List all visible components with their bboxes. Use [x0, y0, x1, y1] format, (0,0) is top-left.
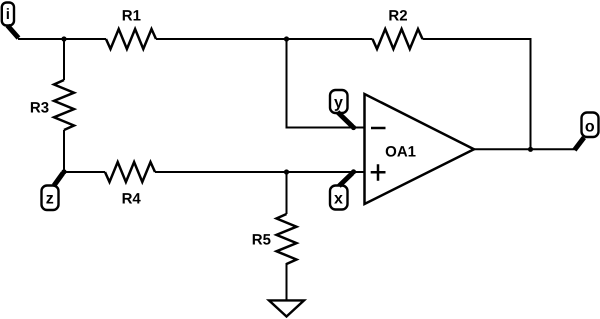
svg-text:R4: R4 [122, 190, 142, 207]
resistor R4 [105, 162, 155, 182]
wire op-amp output [474, 148, 531, 150]
junction output [528, 147, 533, 152]
resistor R3 [54, 80, 74, 130]
junction top-left [61, 36, 66, 41]
junction x pin [351, 169, 356, 174]
junction y pin [351, 125, 356, 130]
op-amp OA1 [365, 94, 475, 204]
wire junction down to R3 [63, 38, 65, 80]
wire R5 to ground [286, 263, 288, 300]
junction node A [284, 36, 289, 41]
wire node B down to R5 [286, 172, 288, 214]
resistor R5 [277, 214, 297, 264]
node o [575, 113, 599, 151]
svg-text:z: z [46, 191, 54, 208]
svg-text:R5: R5 [252, 232, 271, 249]
resistor R1 [106, 29, 156, 49]
wire R4 to node B [155, 171, 287, 173]
svg-text:R3: R3 [30, 99, 49, 116]
svg-text:R2: R2 [388, 7, 407, 24]
svg-text:R1: R1 [122, 7, 141, 24]
node y [330, 90, 353, 127]
junction z [61, 169, 66, 174]
wire node A down feedback [286, 39, 288, 128]
wire R3 to node z [63, 130, 65, 172]
wire node B to plus input [287, 171, 365, 173]
svg-text:OA1: OA1 [385, 144, 416, 161]
op-amp minus pin [371, 127, 386, 130]
resistor R2 [373, 29, 423, 49]
wire R2 to corner [423, 38, 531, 40]
wire node A to R2 [287, 38, 373, 40]
wire output to node o [531, 148, 577, 150]
junction node B [284, 169, 289, 174]
wire z to R4 [64, 171, 105, 173]
svg-text:i: i [6, 6, 10, 23]
ground [269, 300, 304, 316]
svg-text:x: x [334, 191, 343, 208]
node i [2, 3, 19, 39]
node x [330, 173, 353, 210]
node z [42, 173, 64, 210]
wire to minus input [286, 127, 365, 129]
svg-text:o: o [585, 119, 595, 136]
svg-text:y: y [334, 95, 343, 112]
wire R1 to node A [156, 38, 287, 40]
op-amp plus pin [371, 164, 386, 181]
wire feedback down to output [530, 38, 532, 149]
wire i to R1 [18, 38, 106, 40]
